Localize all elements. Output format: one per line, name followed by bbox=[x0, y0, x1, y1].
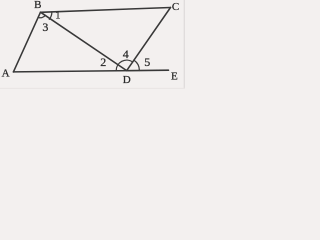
svg-text:C: C bbox=[172, 1, 179, 13]
angle arc at D for angle 5 (DC to DE) bbox=[134, 60, 139, 70]
angle arc at B for angle 3 (BA to BD) bbox=[38, 15, 45, 18]
paper background bbox=[0, 0, 185, 89]
line AE (through D) bbox=[13, 70, 168, 72]
svg-text:4: 4 bbox=[123, 47, 129, 61]
svg-text:2: 2 bbox=[100, 55, 106, 69]
line AB bbox=[13, 12, 40, 72]
svg-text:E: E bbox=[171, 70, 178, 82]
svg-text:5: 5 bbox=[144, 55, 150, 69]
right edge scan shading bbox=[183, 0, 185, 89]
line BD bbox=[41, 12, 127, 70]
angle arc at B for angle 1 (BD to BC) bbox=[49, 12, 52, 20]
svg-text:D: D bbox=[123, 74, 131, 86]
line BC bbox=[41, 8, 171, 13]
svg-text:1: 1 bbox=[55, 11, 60, 22]
angle arc at D for angles 2 and 4 (DA to DC) bbox=[116, 60, 132, 71]
svg-text:A: A bbox=[2, 67, 10, 79]
svg-text:3: 3 bbox=[42, 20, 48, 34]
line CD bbox=[127, 8, 171, 71]
bottom edge scan shading bbox=[0, 88, 185, 89]
svg-text:B: B bbox=[34, 0, 41, 11]
